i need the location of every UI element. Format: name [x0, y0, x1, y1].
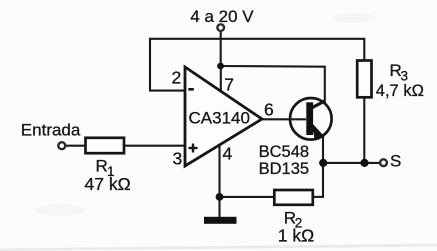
junction pin4/ground node: [216, 193, 224, 201]
R2 label: [284, 209, 303, 231]
svg-text:7: 7: [224, 75, 234, 95]
output terminal S: [380, 159, 387, 166]
junction R3/output node: [360, 159, 368, 167]
wire supply terminal stub: [220, 31, 222, 66]
junction supply/collector node: [217, 63, 224, 70]
junction emitter/output node: [319, 159, 327, 167]
wire pin 4 vertical: [218, 146, 220, 197]
svg-text:BC548: BC548: [259, 143, 309, 161]
wire emitter vertical: [322, 135, 324, 197]
wire pin 7 vertical: [220, 66, 222, 91]
wire ground stub: [218, 197, 220, 218]
svg-text:1 kΩ: 1 kΩ: [278, 226, 314, 246]
wire R3 top vertical: [363, 38, 365, 61]
wire collector branch horizontal: [221, 65, 325, 68]
wire R2 right connector: [313, 196, 324, 198]
wire left vertical rail to pin 2: [149, 38, 151, 91]
svg-text:4 a 20 V: 4 a 20 V: [190, 7, 254, 26]
R1 label: [96, 157, 115, 180]
wire top supply rail: [150, 38, 364, 40]
svg-text:3: 3: [173, 149, 183, 169]
svg-text:S: S: [390, 152, 401, 171]
wire emitter junction to S terminal: [323, 162, 380, 164]
supply terminal: [217, 24, 224, 31]
wire R1 to pin 3: [124, 145, 185, 147]
svg-text:R: R: [96, 157, 108, 176]
svg-text:4,7 kΩ: 4,7 kΩ: [376, 82, 424, 100]
op-amp U1 CA3140: [185, 67, 262, 166]
wire pin 6 to base: [261, 118, 306, 120]
resistor R3: [357, 61, 371, 98]
ground: [204, 217, 237, 224]
svg-text:47 kΩ: 47 kΩ: [85, 174, 131, 194]
wire pin4 junction to R2: [220, 196, 275, 198]
svg-text:BD135: BD135: [259, 160, 309, 178]
scan smudge bottom edge: [0, 244, 437, 251]
R3 label: [390, 61, 409, 84]
svg-text:CA3140: CA3140: [189, 109, 250, 128]
transistor Q1 BC548/BD135: [290, 98, 332, 140]
wire R3 bottom vertical: [363, 97, 365, 163]
wire collector vertical: [324, 66, 326, 103]
svg-text:2: 2: [172, 68, 182, 88]
resistor R2: [274, 190, 313, 205]
svg-text:6: 6: [264, 100, 274, 120]
input terminal: [58, 142, 65, 149]
wire pin 2 horizontal: [149, 90, 185, 92]
resistor R1: [86, 138, 125, 153]
svg-text:4: 4: [223, 144, 233, 164]
wire input terminal to R1: [65, 145, 86, 147]
svg-text:Entrada: Entrada: [21, 121, 81, 140]
